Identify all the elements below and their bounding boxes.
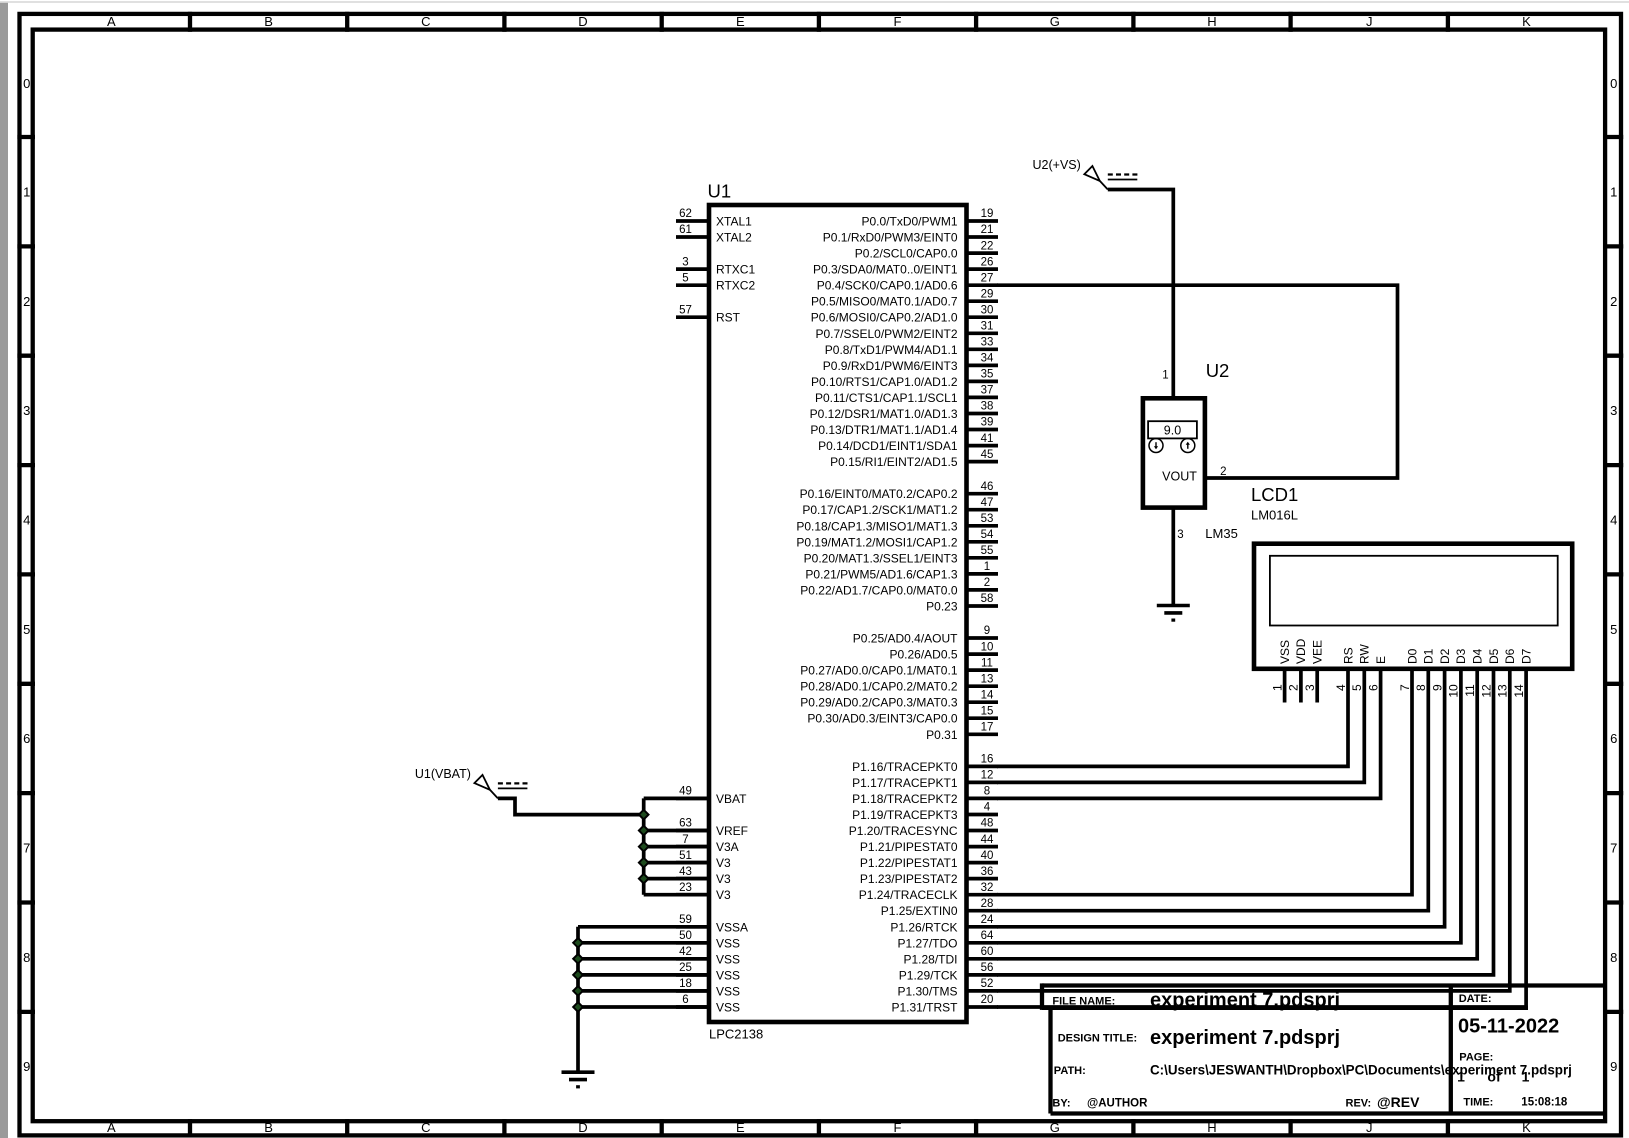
svg-text:P1.26/RTCK: P1.26/RTCK <box>890 920 957 934</box>
U1 pin 33 (P0.8/TxD1/PWM4/AD1.1) <box>825 337 998 357</box>
U2 pin number 1 <box>1162 369 1168 381</box>
svg-text:5: 5 <box>23 622 30 637</box>
U2 up button <box>1181 439 1195 453</box>
svg-text:48: 48 <box>981 818 994 830</box>
svg-text:VBAT: VBAT <box>716 792 747 806</box>
svg-text:D3: D3 <box>1454 648 1468 664</box>
U1 pin 11 (P0.27/AD0.0/CAP0.1/MAT0.1) <box>800 657 998 677</box>
svg-text:B: B <box>264 14 273 29</box>
junction power bus row 40 <box>639 858 649 868</box>
ruler band column dividers <box>190 12 1448 1138</box>
title block file-row bottom rule <box>1042 1006 1528 1010</box>
U1 pin 63 (VREF) <box>676 818 748 838</box>
wire U1 pin 27 P0.4 to U2 pin 2 VOUT <box>997 285 1398 478</box>
svg-text:7: 7 <box>1610 841 1617 856</box>
svg-text:42: 42 <box>679 946 692 958</box>
svg-text:30: 30 <box>981 304 994 316</box>
svg-text:37: 37 <box>981 385 994 397</box>
svg-text:17: 17 <box>981 722 994 734</box>
svg-text:64: 64 <box>981 930 994 942</box>
svg-text:P0.28/AD0.1/CAP0.2/MAT0.2: P0.28/AD0.1/CAP0.2/MAT0.2 <box>800 680 958 694</box>
U1 pin 28 (P1.25/EXTIN0) <box>881 898 998 918</box>
U1 pin 38 (P0.12/DSR1/MAT1.0/AD1.3) <box>810 401 998 421</box>
U1 pin 18 (VSS) <box>676 978 740 998</box>
svg-text:P0.10/RTS1/CAP1.0/AD1.2: P0.10/RTS1/CAP1.0/AD1.2 <box>811 375 958 389</box>
title block rev value <box>1377 1094 1420 1110</box>
svg-text:28: 28 <box>981 898 994 910</box>
svg-text:10: 10 <box>981 641 994 653</box>
svg-text:D5: D5 <box>1487 648 1501 664</box>
svg-text:2: 2 <box>1610 294 1617 309</box>
U1 pin 8 (P1.18/TRACEPKT2) <box>852 786 998 806</box>
title block file name value <box>1150 990 1340 1012</box>
svg-text:E: E <box>736 14 745 29</box>
svg-text:VSS: VSS <box>1278 640 1292 664</box>
svg-text:VSS: VSS <box>716 952 740 966</box>
title block page value 1 of 1 <box>1457 1068 1530 1084</box>
svg-text:6: 6 <box>1366 684 1380 691</box>
svg-text:VEE: VEE <box>1311 640 1325 664</box>
svg-text:B: B <box>264 1120 273 1135</box>
U1 pin 17 (P0.31) <box>926 722 998 742</box>
svg-text:P0.12/DSR1/MAT1.0/AD1.3: P0.12/DSR1/MAT1.0/AD1.3 <box>810 407 958 421</box>
svg-text:VSSA: VSSA <box>716 920 748 934</box>
U1 pin 57 (RST) <box>676 304 741 324</box>
U1 pin 6 (VSS) <box>676 994 740 1014</box>
svg-text:P0.27/AD0.0/CAP0.1/MAT0.1: P0.27/AD0.0/CAP0.1/MAT0.1 <box>800 664 958 678</box>
window left gray strip <box>0 3 8 1138</box>
svg-text:3: 3 <box>23 403 30 418</box>
U1 pin 58 (P0.23) <box>926 593 998 613</box>
svg-text:13: 13 <box>981 673 994 685</box>
svg-text:VOUT: VOUT <box>1162 470 1197 484</box>
svg-text:P1.22/PIPESTAT1: P1.22/PIPESTAT1 <box>860 856 958 870</box>
svg-text:FILE NAME:: FILE NAME: <box>1052 996 1115 1008</box>
svg-text:C: C <box>421 1120 430 1135</box>
svg-text:59: 59 <box>679 914 692 926</box>
svg-text:29: 29 <box>981 288 994 300</box>
svg-text:K: K <box>1522 14 1531 29</box>
svg-text:@REV: @REV <box>1377 1094 1420 1110</box>
svg-text:50: 50 <box>679 930 692 942</box>
svg-text:DATE:: DATE: <box>1459 993 1492 1005</box>
svg-text:5: 5 <box>1350 684 1364 691</box>
U2 pin number 3 <box>1177 529 1183 541</box>
title block PAGE label <box>1459 1052 1493 1064</box>
U1 pin 39 (P0.13/DTR1/MAT1.1/AD1.4) <box>810 417 998 437</box>
svg-text:27: 27 <box>981 272 994 284</box>
wire LCD1 pin 13 (D6) to U1 row 48 <box>997 669 1510 991</box>
U1 pin 36 (P1.23/PIPESTAT2) <box>860 866 998 886</box>
svg-text:RST: RST <box>716 311 741 325</box>
svg-text:19: 19 <box>981 208 994 220</box>
svg-text:P0.26/AD0.5: P0.26/AD0.5 <box>889 648 957 662</box>
svg-text:32: 32 <box>981 882 994 894</box>
svg-text:F: F <box>894 14 902 29</box>
wire U1(VBAT) terminal to power bus <box>498 798 644 814</box>
svg-text:23: 23 <box>679 882 692 894</box>
svg-text:4: 4 <box>1334 684 1348 691</box>
svg-text:1: 1 <box>23 184 30 199</box>
U1 pin 12 (P1.17/TRACEPKT1) <box>852 770 998 790</box>
U2 pin label VOUT <box>1162 470 1197 484</box>
svg-text:2: 2 <box>984 577 990 589</box>
U1 pin 49 (VBAT) <box>676 786 747 806</box>
junction power bus row 38 <box>639 826 649 836</box>
power terminal U2(+VS) <box>1033 158 1138 190</box>
title block design title value <box>1150 1027 1340 1049</box>
wire ground bus vertical <box>576 927 580 1072</box>
U1 pin 2 (P0.22/AD1.7/CAP0.0/MAT0.0) <box>800 577 998 597</box>
svg-text:P0.25/AD0.4/AOUT: P0.25/AD0.4/AOUT <box>853 632 958 646</box>
title block TIME label <box>1463 1096 1493 1108</box>
U1 pin 30 (P0.6/MOSI0/CAP0.2/AD1.0) <box>811 304 998 324</box>
svg-text:05-11-2022: 05-11-2022 <box>1458 1016 1559 1038</box>
svg-text:P1.19/TRACEPKT3: P1.19/TRACEPKT3 <box>852 808 958 822</box>
svg-text:24: 24 <box>981 914 994 926</box>
wire LCD1 pin 12 (D5) to U1 row 47 <box>997 669 1494 975</box>
svg-text:P0.16/EINT0/MAT0.2/CAP0.2: P0.16/EINT0/MAT0.2/CAP0.2 <box>800 487 958 501</box>
svg-text:P0.30/AD0.3/EINT3/CAP0.0: P0.30/AD0.3/EINT3/CAP0.0 <box>807 712 957 726</box>
svg-text:P0.9/RxD1/PWM6/EINT3: P0.9/RxD1/PWM6/EINT3 <box>823 359 958 373</box>
svg-text:P1.21/PIPESTAT0: P1.21/PIPESTAT0 <box>860 840 958 854</box>
svg-text:of: of <box>1487 1068 1501 1084</box>
U1 pin 7 (V3A) <box>676 834 739 854</box>
svg-text:P1.20/TRACESYNC: P1.20/TRACESYNC <box>849 824 958 838</box>
title block PATH label <box>1054 1065 1086 1077</box>
U1 pin 54 (P0.19/MAT1.2/MOSI1/CAP1.2) <box>796 529 998 549</box>
svg-text:35: 35 <box>981 369 994 381</box>
svg-text:P0.20/MAT1.3/SSEL1/EINT3: P0.20/MAT1.3/SSEL1/EINT3 <box>804 551 958 565</box>
svg-text:8: 8 <box>1414 684 1428 691</box>
svg-text:K: K <box>1522 1120 1531 1135</box>
svg-text:56: 56 <box>981 962 994 974</box>
title block top rule <box>1042 983 1604 987</box>
svg-text:8: 8 <box>23 950 30 965</box>
svg-text:TIME:: TIME: <box>1463 1096 1493 1108</box>
wire U2 pin 3 to ground <box>1171 508 1175 606</box>
svg-text:4: 4 <box>23 513 30 528</box>
U1 pin 64 (P1.27/TDO) <box>897 930 998 950</box>
svg-text:U2: U2 <box>1206 360 1230 381</box>
svg-text:44: 44 <box>981 834 994 846</box>
junction power bus row 41 <box>639 874 649 884</box>
U1 pin 4 (P1.19/TRACEPKT3) <box>852 802 998 822</box>
U1 pin 56 (P1.29/TCK) <box>899 962 998 982</box>
svg-text:P0.18/CAP1.3/MISO1/MAT1.3: P0.18/CAP1.3/MISO1/MAT1.3 <box>796 519 958 533</box>
svg-text:@AUTHOR: @AUTHOR <box>1087 1097 1148 1109</box>
svg-text:13: 13 <box>1496 684 1510 698</box>
svg-text:RW: RW <box>1358 644 1372 664</box>
svg-text:20: 20 <box>981 994 994 1006</box>
svg-text:9: 9 <box>1430 684 1444 691</box>
U1 pin 20 (P1.31/TRST) <box>891 994 998 1014</box>
svg-text:P0.0/TxD0/PWM1: P0.0/TxD0/PWM1 <box>861 215 957 229</box>
svg-text:RS: RS <box>1341 647 1355 664</box>
U1 pin 50 (VSS) <box>676 930 740 950</box>
svg-text:57: 57 <box>679 304 692 316</box>
LCD1 pin labels VSS..D7 (rotated) <box>1278 638 1534 664</box>
svg-text:P1.25/EXTIN0: P1.25/EXTIN0 <box>881 904 958 918</box>
svg-text:DESIGN TITLE:: DESIGN TITLE: <box>1058 1033 1137 1045</box>
junction ground bus row 45 <box>573 938 583 948</box>
wire LCD1 pin 8 (D1) to U1 row 43 <box>997 669 1428 911</box>
display LCD1 body (LM016L) <box>1254 544 1572 669</box>
svg-text:BY:: BY: <box>1052 1097 1070 1109</box>
svg-text:D2: D2 <box>1438 648 1452 664</box>
U1 pin 59 (VSSA) <box>676 914 748 934</box>
junction ground bus row 47 <box>573 970 583 980</box>
svg-text:7: 7 <box>682 834 688 846</box>
svg-text:33: 33 <box>981 337 994 349</box>
svg-text:14: 14 <box>981 689 994 701</box>
svg-text:P0.4/SCK0/CAP0.1/AD0.6: P0.4/SCK0/CAP0.1/AD0.6 <box>817 279 958 293</box>
svg-text:61: 61 <box>679 224 692 236</box>
svg-text:LM35: LM35 <box>1205 526 1238 541</box>
svg-text:LCD1: LCD1 <box>1251 484 1298 505</box>
U1 pin 62 (XTAL1) <box>676 208 752 228</box>
U1 value label LPC2138 <box>709 1027 763 1042</box>
svg-text:47: 47 <box>981 497 994 509</box>
svg-text:39: 39 <box>981 417 994 429</box>
svg-text:H: H <box>1207 1120 1216 1135</box>
U1 pin 21 (P0.1/RxD0/PWM3/EINT0) <box>823 224 998 244</box>
U1 pin 32 (P1.24/TRACECLK) <box>859 882 998 902</box>
title block left edge (file row) <box>1040 983 1044 1010</box>
svg-text:9: 9 <box>23 1059 30 1074</box>
svg-text:P0.15/RI1/EINT2/AD1.5: P0.15/RI1/EINT2/AD1.5 <box>830 455 958 469</box>
junction ground bus row 49 <box>573 1002 583 1012</box>
svg-text:U1(VBAT): U1(VBAT) <box>415 767 471 781</box>
U2 reference label <box>1206 360 1230 381</box>
U1 pin 23 (V3) <box>676 882 731 902</box>
U1 pin 48 (P1.20/TRACESYNC) <box>849 818 998 838</box>
svg-text:PATH:: PATH: <box>1054 1065 1086 1077</box>
svg-text:5: 5 <box>1610 622 1617 637</box>
svg-text:3: 3 <box>682 256 688 268</box>
svg-text:1: 1 <box>1610 184 1617 199</box>
svg-text:6: 6 <box>23 731 30 746</box>
svg-text:P1.17/TRACEPKT1: P1.17/TRACEPKT1 <box>852 776 958 790</box>
svg-text:46: 46 <box>981 481 994 493</box>
svg-text:P1.29/TCK: P1.29/TCK <box>899 968 958 982</box>
U1 pin 9 (P0.25/AD0.4/AOUT) <box>853 625 998 645</box>
U1 pin 46 (P0.16/EINT0/MAT0.2/CAP0.2) <box>800 481 998 501</box>
svg-text:V3A: V3A <box>716 840 739 854</box>
IC U1 body (LPC2138 microcontroller) <box>709 205 967 1022</box>
LCD1 screen area <box>1270 556 1558 626</box>
U1 pin 5 (RTXC2) <box>676 272 755 292</box>
svg-text:VSS: VSS <box>716 984 740 998</box>
svg-text:12: 12 <box>1479 684 1493 698</box>
svg-text:VSS: VSS <box>716 968 740 982</box>
svg-text:P0.8/TxD1/PWM4/AD1.1: P0.8/TxD1/PWM4/AD1.1 <box>825 343 958 357</box>
svg-text:54: 54 <box>981 529 994 541</box>
U1 pin 55 (P0.20/MAT1.3/SSEL1/EINT3) <box>804 545 998 565</box>
junction power bus row 39 <box>639 842 649 852</box>
svg-text:52: 52 <box>981 978 994 990</box>
svg-text:53: 53 <box>981 513 994 525</box>
ruler band row dividers <box>17 137 1623 1012</box>
svg-text:P0.3/SDA0/MAT0..0/EINT1: P0.3/SDA0/MAT0..0/EINT1 <box>813 263 958 277</box>
svg-text:D0: D0 <box>1405 648 1419 664</box>
U1 pin 25 (VSS) <box>676 962 740 982</box>
wire U2(+VS) to U2 pin 1 <box>1108 190 1174 399</box>
svg-text:J: J <box>1366 14 1373 29</box>
svg-text:21: 21 <box>981 224 994 236</box>
U2 value label LM35 <box>1205 526 1238 541</box>
svg-text:D1: D1 <box>1422 648 1436 664</box>
svg-text:P0.7/SSEL0/PWM2/EINT2: P0.7/SSEL0/PWM2/EINT2 <box>815 327 957 341</box>
svg-text:D4: D4 <box>1471 648 1485 664</box>
title block path value <box>1150 1062 1572 1077</box>
svg-text:LPC2138: LPC2138 <box>709 1027 763 1042</box>
title block DATE label <box>1459 993 1492 1005</box>
U1 pin 47 (P0.17/CAP1.2/SCK1/MAT1.2) <box>802 497 998 517</box>
svg-text:J: J <box>1366 1120 1373 1135</box>
svg-text:60: 60 <box>981 946 994 958</box>
svg-text:P0.29/AD0.2/CAP0.3/MAT0.3: P0.29/AD0.2/CAP0.3/MAT0.3 <box>800 696 958 710</box>
svg-text:P0.6/MOSI0/CAP0.2/AD1.0: P0.6/MOSI0/CAP0.2/AD1.0 <box>811 311 958 325</box>
U1 pin 24 (P1.26/RTCK) <box>890 914 998 934</box>
U2 pin number 2 <box>1220 466 1226 478</box>
svg-text:G: G <box>1050 14 1060 29</box>
svg-text:RTXC2: RTXC2 <box>716 279 755 293</box>
svg-text:P1.31/TRST: P1.31/TRST <box>891 1001 958 1015</box>
svg-text:V3: V3 <box>716 856 731 870</box>
svg-text:P1.27/TDO: P1.27/TDO <box>897 936 957 950</box>
wire ground bus branches to VSSA/VSS pins <box>578 927 709 1007</box>
svg-text:16: 16 <box>981 754 994 766</box>
svg-text:55: 55 <box>981 545 994 557</box>
svg-text:51: 51 <box>679 850 692 862</box>
U1 pin 52 (P1.30/TMS) <box>897 978 998 998</box>
svg-text:REV:: REV: <box>1346 1098 1372 1110</box>
power terminal U1(VBAT) <box>415 767 528 799</box>
title block date column divider <box>1449 986 1453 1114</box>
svg-text:3: 3 <box>1177 529 1183 541</box>
svg-text:P0.17/CAP1.2/SCK1/MAT1.2: P0.17/CAP1.2/SCK1/MAT1.2 <box>802 503 958 517</box>
svg-text:22: 22 <box>981 240 994 252</box>
svg-text:18: 18 <box>679 978 692 990</box>
svg-text:11: 11 <box>981 657 993 669</box>
U1 pin 27 (P0.4/SCK0/CAP0.1/AD0.6) <box>817 272 998 292</box>
svg-text:P0.1/RxD0/PWM3/EINT0: P0.1/RxD0/PWM3/EINT0 <box>823 231 958 245</box>
U1 pin 60 (P1.28/TDI) <box>903 946 998 966</box>
U1 pin 43 (V3) <box>676 866 731 886</box>
svg-text:4: 4 <box>984 802 991 814</box>
svg-text:U2(+VS): U2(+VS) <box>1033 158 1081 172</box>
title block bottom rule <box>1051 1111 1606 1115</box>
U1 pin 15 (P0.30/AD0.3/EINT3/CAP0.0) <box>807 705 998 725</box>
svg-text:P1.28/TDI: P1.28/TDI <box>903 952 957 966</box>
svg-text:XTAL2: XTAL2 <box>716 231 752 245</box>
svg-text:40: 40 <box>981 850 994 862</box>
LCD1 value label LM016L <box>1251 508 1298 523</box>
svg-text:P1.24/TRACECLK: P1.24/TRACECLK <box>859 888 958 902</box>
U1 pin 61 (XTAL2) <box>676 224 752 244</box>
svg-text:9: 9 <box>984 625 990 637</box>
svg-text:5: 5 <box>682 272 688 284</box>
svg-text:1: 1 <box>1457 1068 1465 1084</box>
svg-text:P0.2/SCL0/CAP0.0: P0.2/SCL0/CAP0.0 <box>855 247 958 261</box>
svg-text:VDD: VDD <box>1294 638 1308 664</box>
U1 pin 40 (P1.22/PIPESTAT1) <box>860 850 998 870</box>
svg-text:P0.13/DTR1/MAT1.1/AD1.4: P0.13/DTR1/MAT1.1/AD1.4 <box>810 423 957 437</box>
U1 pin 31 (P0.7/SSEL0/PWM2/EINT2) <box>815 321 998 341</box>
svg-text:1: 1 <box>1270 684 1284 691</box>
svg-text:2: 2 <box>1220 466 1226 478</box>
junction ground bus row 48 <box>573 986 583 996</box>
svg-text:P0.31: P0.31 <box>926 728 958 742</box>
svg-text:P0.5/MISO0/MAT0.1/AD0.7: P0.5/MISO0/MAT0.1/AD0.7 <box>811 295 958 309</box>
LCD1 reference label <box>1251 484 1298 505</box>
svg-text:1: 1 <box>984 561 990 573</box>
U2 down button <box>1149 439 1163 453</box>
svg-text:4: 4 <box>1610 513 1617 528</box>
LCD1 pin 1 (VSS) stub <box>1270 669 1284 703</box>
svg-text:PAGE:: PAGE: <box>1459 1052 1493 1064</box>
svg-text:P0.23: P0.23 <box>926 600 958 614</box>
U1 pin 41 (P0.14/DCD1/EINT1/SDA1) <box>818 433 998 453</box>
svg-text:C: C <box>421 14 430 29</box>
svg-text:experiment 7.pdsprj: experiment 7.pdsprj <box>1150 1027 1340 1049</box>
svg-text:P1.30/TMS: P1.30/TMS <box>897 984 957 998</box>
U1 pin 35 (P0.10/RTS1/CAP1.0/AD1.2) <box>811 369 998 389</box>
U1 pin 53 (P0.18/CAP1.3/MISO1/MAT1.3) <box>796 513 998 533</box>
junction VBAT bus / terminal wire <box>639 810 649 820</box>
svg-text:3: 3 <box>1610 403 1617 418</box>
svg-text:8: 8 <box>984 786 990 798</box>
wire LCD1 pin 6 (E) to U1 row 36 <box>997 669 1381 799</box>
svg-text:38: 38 <box>981 401 994 413</box>
svg-text:14: 14 <box>1512 684 1526 698</box>
svg-text:49: 49 <box>679 786 692 798</box>
wire LCD1 pin 14 (D7) to U1 row 49 <box>997 669 1526 1007</box>
svg-text:D: D <box>578 14 587 29</box>
U1 pin 14 (P0.29/AD0.2/CAP0.3/MAT0.3) <box>800 689 998 709</box>
svg-text:15:08:18: 15:08:18 <box>1521 1096 1568 1108</box>
U1 pin 19 (P0.0/TxD0/PWM1) <box>861 208 998 228</box>
wire power bus vertical <box>642 798 646 894</box>
svg-text:7: 7 <box>1398 684 1412 691</box>
svg-text:31: 31 <box>981 321 994 333</box>
svg-text:E: E <box>736 1120 745 1135</box>
wire power bus branches to VBAT/VREF/V3A/V3 pins <box>644 798 709 894</box>
svg-text:H: H <box>1207 14 1216 29</box>
svg-text:10: 10 <box>1447 684 1461 698</box>
svg-text:62: 62 <box>679 208 692 220</box>
svg-text:P0.14/DCD1/EINT1/SDA1: P0.14/DCD1/EINT1/SDA1 <box>818 439 958 453</box>
svg-text:6: 6 <box>1610 731 1617 746</box>
svg-text:15: 15 <box>981 705 994 717</box>
svg-text:2: 2 <box>23 294 30 309</box>
U1 reference label <box>708 181 732 202</box>
U1 pin 37 (P0.11/CTS1/CAP1.1/SCL1) <box>815 385 998 405</box>
title block REV label <box>1346 1098 1372 1110</box>
svg-text:2: 2 <box>1287 684 1301 691</box>
sensor U2 body (LM35) <box>1143 398 1205 507</box>
svg-text:43: 43 <box>679 866 692 878</box>
title block BY label <box>1052 1097 1070 1109</box>
svg-text:P1.16/TRACEPKT0: P1.16/TRACEPKT0 <box>852 760 958 774</box>
U1 pin 29 (P0.5/MISO0/MAT0.1/AD0.7) <box>811 288 998 308</box>
U1 pin 44 (P1.21/PIPESTAT0) <box>860 834 998 854</box>
svg-text:36: 36 <box>981 866 994 878</box>
svg-text:E: E <box>1374 656 1388 664</box>
svg-text:D6: D6 <box>1503 648 1517 664</box>
svg-text:P1.18/TRACEPKT2: P1.18/TRACEPKT2 <box>852 792 958 806</box>
